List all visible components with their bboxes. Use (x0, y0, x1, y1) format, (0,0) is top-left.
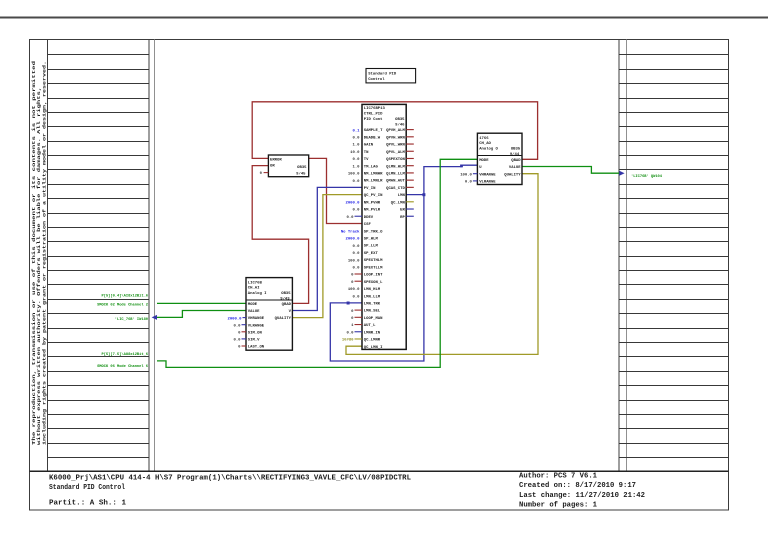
svg-text:OB35: OB35 (511, 148, 521, 152)
ERROR.IN3 unconnected stub with value 0 (264, 172, 269, 174)
svg-text:TN: TN (364, 151, 369, 155)
svg-text:DDEV: DDEV (364, 216, 374, 220)
junction dot on LMN branch (422, 193, 425, 196)
svg-text:OB35: OB35 (297, 166, 307, 170)
wire CH_AI.QUALITY to CTRL_PID.QC_PV_IN (olive) (292, 195, 362, 318)
svg-text:LOOP_MAN: LOOP_MAN (364, 317, 383, 321)
svg-text:0.1: 0.1 (352, 129, 360, 133)
svg-text:P[5][0.4]\AI8x12Bit_6: P[5][0.4]\AI8x12Bit_6 (102, 293, 148, 298)
svg-text:0.0: 0.0 (352, 209, 360, 213)
svg-text:without express written author: without express written authority. Offen… (37, 87, 42, 445)
svg-text:9/46: 9/46 (395, 122, 405, 127)
svg-text:TM_LAG: TM_LAG (364, 165, 379, 169)
svg-text:VHRANGE: VHRANGE (248, 317, 265, 321)
svg-text:LMN_TRK: LMN_TRK (364, 302, 381, 306)
junction dot on U jog (460, 165, 463, 168)
title block top line (30, 470, 729, 472)
svg-text:0.0: 0.0 (465, 181, 473, 185)
svg-text:10.0: 10.0 (350, 151, 360, 155)
svg-text:QLMN_LLM: QLMN_LLM (386, 173, 405, 177)
svg-text:NM_PVHR: NM_PVHR (364, 201, 381, 205)
svg-text:QPVH_WRN: QPVH_WRN (386, 136, 405, 140)
svg-text:SP_LLM: SP_LLM (364, 245, 379, 249)
svg-text:100.0: 100.0 (460, 173, 472, 177)
svg-text:QSPEXTON: QSPEXTON (386, 158, 405, 162)
svg-text:SAMPLE_T: SAMPLE_T (364, 129, 383, 133)
svg-text:PV_IN: PV_IN (364, 187, 376, 191)
svg-text:MODE: MODE (479, 159, 489, 163)
svg-text:RP: RP (400, 216, 405, 220)
svg-text:CTRL_PID: CTRL_PID (364, 113, 383, 117)
svg-text:LMN_HLM: LMN_HLM (364, 288, 381, 292)
svg-text:QBAD: QBAD (511, 159, 521, 163)
svg-text:Standard PID: Standard PID (368, 72, 397, 77)
svg-text:VLRANGE: VLRANGE (479, 181, 496, 185)
svg-text:0.0: 0.0 (352, 180, 360, 184)
svg-text:QCAS_CTD: QCAS_CTD (386, 187, 405, 191)
top page separator line (0, 17, 768, 19)
svg-text:OR: OR (270, 165, 275, 169)
left sheetbar row lines (47, 55, 149, 458)
svg-text:VLRANGE: VLRANGE (248, 324, 265, 328)
svg-text:0.0: 0.0 (352, 137, 360, 141)
svg-text:0: 0 (351, 281, 354, 285)
svg-text:SP_HLM: SP_HLM (364, 238, 379, 242)
CH_AO header separator (477, 155, 522, 157)
svg-text:1: 1 (351, 324, 354, 328)
svg-text:QC_PV_IN: QC_PV_IN (364, 194, 383, 198)
left sheetbar border vertical (148, 40, 150, 472)
svg-text:QC_LMNR: QC_LMNR (364, 339, 381, 343)
svg-text:DEADB_W: DEADB_W (364, 136, 381, 140)
svg-text:9/45: 9/45 (296, 172, 306, 177)
svg-text:AUT_L: AUT_L (364, 324, 376, 328)
svg-text:0.0: 0.0 (352, 245, 360, 249)
svg-text:0: 0 (351, 310, 354, 314)
svg-text:Control: Control (368, 77, 385, 82)
svg-text:SIM_ON: SIM_ON (248, 331, 263, 335)
svg-text:Created on:: 8/17/2010 9:17: Created on:: 8/17/2010 9:17 (519, 482, 636, 490)
svg-text:P[5][7.5]\AO8x12Bit_6: P[5][7.5]\AO8x12Bit_6 (102, 352, 148, 357)
svg-text:QBAD: QBAD (282, 303, 292, 307)
svg-text:SPEXTHLM: SPEXTHLM (364, 259, 383, 263)
svg-text:100.0: 100.0 (348, 288, 360, 292)
svg-text:0: 0 (238, 346, 241, 350)
svg-text:Last change: 11/27/2010 21:42: Last change: 11/27/2010 21:42 (519, 492, 645, 500)
svg-text:OB35: OB35 (395, 118, 405, 122)
svg-text:0: 0 (238, 332, 241, 336)
svg-text:SP_TRK_O: SP_TRK_O (364, 230, 383, 234)
svg-text:K6000_Prj\AS1\CPU 414-4 H\S7 P: K6000_Prj\AS1\CPU 414-4 H\S7 Program(1)\… (49, 474, 411, 482)
svg-text:9/43: 9/43 (280, 296, 290, 301)
svg-text:QMAN_AUT: QMAN_AUT (386, 180, 405, 184)
right sheet margin vertical (625, 40, 627, 472)
svg-text:VHRANGE: VHRANGE (479, 173, 496, 177)
svg-text:LIC76B: LIC76B (248, 281, 263, 285)
wire LMN to CH_AO.U (blue, with jog) (424, 165, 478, 194)
svg-text:1.0: 1.0 (352, 165, 360, 169)
wire CH_AI.V to CTRL_PID.PV_IN (blue) (292, 187, 362, 310)
svg-text:CSF: CSF (364, 223, 372, 227)
wire 'LIC_76B' IW180 to CH_AI.VALUE (green) (157, 311, 246, 318)
svg-text:QPVH_ALM: QPVH_ALM (386, 129, 405, 133)
svg-text:SPEXON_L: SPEXON_L (364, 281, 383, 285)
svg-text:16#80: 16#80 (342, 339, 354, 343)
svg-text:0: 0 (351, 317, 354, 321)
block 1766 CH_AO body (477, 133, 522, 184)
svg-text:Analog I: Analog I (248, 291, 267, 296)
svg-text:'LIC_76B' IW180: 'LIC_76B' IW180 (115, 317, 148, 322)
svg-text:0.0: 0.0 (352, 158, 360, 162)
svg-text:LMNR_IN: LMNR_IN (364, 331, 381, 335)
svg-text:QUALITY: QUALITY (504, 173, 521, 177)
wire CH_AO.VALUE to sheetbar 'LIC76B' QW104 (green) (522, 167, 619, 174)
svg-text:NM_PVLR: NM_PVLR (364, 209, 381, 213)
wire CH_AO.QBAD to ERROR.IN1 (red) (252, 102, 537, 160)
svg-text:1766: 1766 (479, 137, 489, 141)
junction dot on LMN_TRK segment (347, 302, 350, 305)
svg-text:1.0: 1.0 (352, 144, 360, 148)
svg-text:QLMN_HLM: QLMN_HLM (386, 165, 405, 169)
svg-text:SMOCK 06 Mode Channel 6: SMOCK 06 Mode Channel 6 (97, 364, 148, 369)
svg-text:0.0: 0.0 (233, 339, 241, 343)
svg-text:VALUE: VALUE (509, 166, 521, 170)
svg-text:SPEXTLLM: SPEXTLLM (364, 266, 383, 270)
svg-text:QC_LMN_I: QC_LMN_I (364, 346, 383, 350)
block ERROR (OR) body (268, 155, 308, 177)
svg-text:0: 0 (260, 172, 263, 176)
svg-text:QPVL_ALM: QPVL_ALM (386, 151, 405, 155)
wire sheetbar Mode Channel 6 to CH_AO.MODE (green) (157, 159, 477, 367)
svg-text:LMN: LMN (398, 194, 406, 198)
svg-text:OB35: OB35 (281, 292, 291, 296)
svg-text:LMN_LLM: LMN_LLM (364, 295, 381, 299)
svg-text:LIC76BP13: LIC76BP13 (364, 107, 386, 111)
svg-text:NM_LMNHR: NM_LMNHR (364, 173, 383, 177)
svg-text:GAIN: GAIN (364, 144, 374, 148)
blue arrow textual interconnection at right sheetbar (619, 171, 624, 176)
svg-text:2000.0: 2000.0 (345, 238, 360, 242)
svg-text:No Track: No Track (341, 229, 360, 234)
svg-text:SIM_V: SIM_V (248, 339, 260, 343)
svg-text:Author: PCS 7 V6.1: Author: PCS 7 V6.1 (519, 472, 597, 480)
svg-text:CH_AO: CH_AO (479, 142, 491, 146)
svg-text:ERROR: ERROR (270, 158, 282, 162)
svg-text:QPVL_WRN: QPVL_WRN (386, 144, 405, 148)
svg-text:Analog O: Analog O (479, 147, 498, 152)
svg-text:Partit.: A Sh.: 1: Partit.: A Sh.: 1 (49, 500, 126, 508)
svg-text:ER: ER (400, 209, 405, 213)
svg-text:NM_LMNLR: NM_LMNLR (364, 180, 383, 184)
block LIC76B CH_AI body (246, 278, 292, 351)
left sheet margin vertical (153, 40, 155, 472)
svg-text:TV: TV (364, 158, 369, 162)
svg-text:SMOCK 02 Mode Channel 2: SMOCK 02 Mode Channel 2 (97, 302, 148, 307)
wire LMN feedback to CTRL_PID.LMN_TRK (blue) (330, 195, 424, 361)
svg-text:0.0: 0.0 (352, 295, 360, 299)
left sheetbar inner vertical (46, 40, 48, 472)
wire CTRL_PID.LMN output segment (blue) (406, 194, 424, 196)
svg-text:QUALITY: QUALITY (275, 317, 292, 321)
wire ERROR.OUT to CTRL_PID.CSF (red) (309, 158, 362, 223)
svg-text:VALUE: VALUE (248, 310, 260, 314)
svg-text:0.0: 0.0 (233, 324, 241, 328)
block LIC76BP13 CTRL_PID body (362, 104, 406, 349)
svg-text:100.0: 100.0 (348, 173, 360, 177)
rotated copyright text left margin (32, 60, 48, 445)
wire sheetbar Mode Channel 2 to CH_AI.MODE (green) (157, 302, 246, 304)
svg-text:MODE: MODE (248, 303, 258, 307)
svg-text:2000.0: 2000.0 (345, 202, 360, 206)
CH_AI header separator (246, 299, 292, 301)
svg-text:Number of pages: 1: Number of pages: 1 (519, 501, 597, 509)
svg-text:0.0: 0.0 (346, 216, 354, 220)
svg-text:CH_AI: CH_AI (248, 287, 260, 291)
wire CH_AO.QUALITY to CTRL_PID.QC_LMN_I (olive) (346, 174, 538, 355)
svg-text:Standard PID Control: Standard PID Control (49, 484, 125, 492)
svg-text:0.0: 0.0 (352, 266, 360, 270)
svg-text:0.0: 0.0 (346, 331, 354, 335)
svg-text:including rights created by pa: including rights created by patent grant… (42, 61, 47, 445)
svg-text:LOOP_INT: LOOP_INT (364, 274, 383, 278)
svg-text:LMN_SEL: LMN_SEL (364, 310, 381, 314)
right sheetbar border vertical (618, 40, 620, 472)
svg-text:0: 0 (351, 274, 354, 278)
right sheetbar row lines (619, 55, 729, 458)
svg-text:100.0: 100.0 (348, 259, 360, 263)
svg-text:'LIC76B' QW104: 'LIC76B' QW104 (631, 174, 663, 179)
page frame (30, 40, 729, 511)
svg-text:QC_LMN: QC_LMN (391, 201, 406, 205)
chart overview text box 'Standard PID Control' (366, 69, 416, 83)
svg-text:The reproduction, transmission: The reproduction, transmission or use of… (32, 60, 37, 445)
svg-text:SP_EXT: SP_EXT (364, 252, 379, 256)
svg-text:LAST_ON: LAST_ON (248, 346, 265, 350)
wire CH_AI.QBAD to ERROR.IN2 (red) (252, 166, 308, 304)
svg-text:2000.0: 2000.0 (227, 317, 242, 321)
svg-text:0.0: 0.0 (352, 252, 360, 256)
svg-text:PID Cont: PID Cont (364, 118, 383, 122)
blue arrow textual interconnection at 'LIC_76B' IW180 (152, 315, 157, 320)
